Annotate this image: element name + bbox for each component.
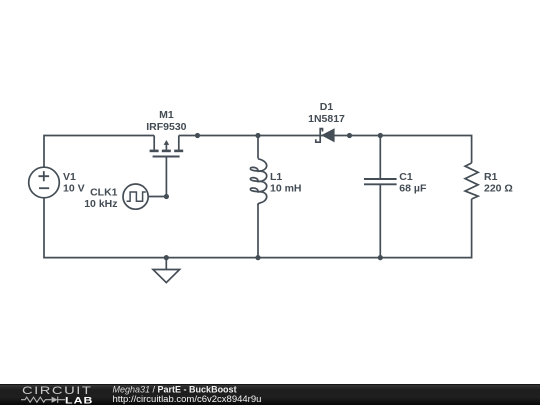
- svg-text:10 kHz: 10 kHz: [84, 198, 117, 210]
- wire L1 top lead: [257, 136, 259, 159]
- wire CLK1 to gate node: [148, 196, 166, 198]
- wire V1 bottom lead + bottom rail + right rail bottom: [44, 198, 472, 258]
- svg-text:LAB: LAB: [65, 396, 93, 405]
- source vertical: [153, 136, 155, 150]
- svg-text:R1: R1: [484, 171, 498, 183]
- svg-text:1N5817: 1N5817: [308, 113, 345, 125]
- drain vertical: [178, 136, 180, 150]
- svg-text:Megha31 / PartE - BuckBoost: Megha31 / PartE - BuckBoost: [113, 384, 237, 394]
- inductor L1: [250, 159, 266, 205]
- node dot M1 drain: [195, 133, 200, 138]
- body arrow: [165, 144, 167, 150]
- resistor R1: [465, 163, 478, 199]
- svg-text:C1: C1: [399, 171, 413, 183]
- voltage source V1: [29, 167, 60, 198]
- diode D1 (schottky 1N5817): [316, 128, 335, 142]
- wire top rail left + V1 top lead: [44, 136, 154, 168]
- node dot L1 top: [255, 133, 260, 138]
- transistor M1 (PMOS IRF9530): [150, 136, 184, 157]
- source bar: [150, 150, 159, 153]
- svg-text:D1: D1: [320, 101, 334, 113]
- clock source CLK1: [123, 184, 148, 209]
- node dot L1 bottom: [255, 255, 260, 260]
- svg-text:V1: V1: [63, 171, 76, 183]
- node dot gate-clk junction: [164, 194, 169, 199]
- node dot C1 bottom: [378, 255, 383, 260]
- node dot C1 top: [378, 133, 383, 138]
- gate line: [153, 156, 180, 158]
- svg-text:10 V: 10 V: [63, 183, 85, 195]
- svg-text:CLK1: CLK1: [90, 186, 118, 198]
- drain bar: [174, 150, 183, 153]
- node dot diode-C1: [347, 133, 352, 138]
- wire C1 bottom lead: [379, 185, 381, 258]
- svg-text:L1: L1: [270, 171, 282, 183]
- wire C1 top lead: [379, 136, 381, 179]
- wire gate vertical: [165, 157, 167, 197]
- svg-text:220 Ω: 220 Ω: [484, 182, 513, 194]
- logo resistor-diode graphic: [21, 397, 65, 403]
- capacitor C1: [364, 179, 397, 184]
- node dot ground: [164, 255, 169, 260]
- svg-text:IRF9530: IRF9530: [146, 121, 186, 133]
- cathode bar with schottky hooks: [316, 129, 323, 143]
- svg-text:http://circuitlab.com/c6v2cx89: http://circuitlab.com/c6v2cx8944r9u: [113, 394, 262, 405]
- svg-text:M1: M1: [159, 109, 174, 121]
- body bar: [162, 150, 171, 153]
- ground: [153, 258, 180, 283]
- svg-text:10 mH: 10 mH: [270, 182, 302, 194]
- wire top rail right + right rail top: [179, 136, 472, 164]
- svg-text:68 µF: 68 µF: [399, 182, 427, 194]
- wire L1 bottom lead: [257, 204, 259, 258]
- anode triangle: [321, 128, 334, 142]
